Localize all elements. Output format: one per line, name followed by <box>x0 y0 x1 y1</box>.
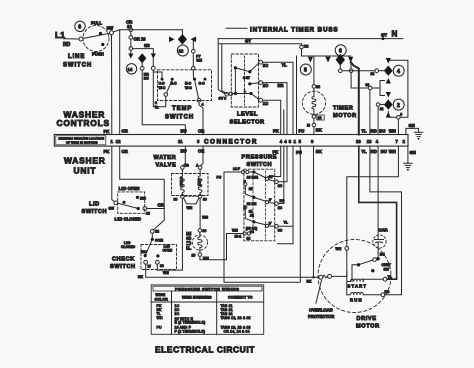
svg-text:13 DE: 13 DE <box>247 202 257 206</box>
label LEVEL SELECTOR <box>230 112 265 126</box>
wire WH link under valve <box>184 198 200 210</box>
svg-text:OR: OR <box>158 202 164 207</box>
svg-text:COM: COM <box>155 239 163 243</box>
wire BU pin to connector (position 11) <box>142 70 185 134</box>
centrifugal switch <box>352 258 392 282</box>
svg-text:10: 10 <box>356 139 361 144</box>
svg-text:0: 0 <box>78 25 81 31</box>
svg-text:1C: 1C <box>278 184 283 188</box>
svg-text:PU: PU <box>157 326 162 330</box>
svg-text:15-1: 15-1 <box>235 235 242 239</box>
svg-text:LID: LID <box>89 202 100 208</box>
svg-text:WASHER: WASHER <box>64 156 106 166</box>
node L1 <box>55 30 65 40</box>
svg-text:GN: GN <box>409 123 415 128</box>
svg-text:3C: 3C <box>263 63 268 68</box>
wire GY internal <box>218 38 301 94</box>
svg-text:WH: WH <box>232 229 238 233</box>
svg-text:OR: OR <box>198 129 204 134</box>
svg-text:N: N <box>392 30 398 39</box>
svg-text:12: 12 <box>155 230 159 234</box>
svg-text:9: 9 <box>400 113 402 117</box>
svg-text:GN: GN <box>410 150 416 155</box>
wire BK connector down to overload <box>313 146 315 277</box>
wire RD connector 13 up to 32 <box>369 90 371 135</box>
svg-text:PK: PK <box>273 129 279 134</box>
svg-text:RUN: RUN <box>350 298 363 303</box>
svg-text:L: L <box>244 89 246 93</box>
node 32 bracket <box>366 81 385 96</box>
svg-text:GY: GY <box>381 33 387 38</box>
wire labels above connector <box>104 128 396 135</box>
svg-text:SB: SB <box>144 43 150 48</box>
wire timer motor feed 18 <box>312 56 320 89</box>
node water valve 30 terminals <box>174 195 207 202</box>
node N <box>381 30 398 39</box>
svg-text:MOTOR: MOTOR <box>333 113 357 119</box>
svg-text:12: 12 <box>116 139 121 144</box>
label PRESSURE SWITCH <box>242 155 278 169</box>
svg-text:GY 3: GY 3 <box>219 96 227 100</box>
svg-text:SW: SW <box>107 26 114 31</box>
svg-text:SWITCH: SWITCH <box>247 162 273 168</box>
svg-text:CONNECT TO: CONNECT TO <box>228 296 253 300</box>
svg-text:11: 11 <box>178 139 183 144</box>
svg-text:3: 3 <box>197 139 200 144</box>
drive motor dashed circle <box>318 240 391 313</box>
label TIMER MOTOR <box>333 106 357 120</box>
connector diamond 12 with arrows <box>169 34 196 50</box>
wire BK check switch to overload <box>138 264 318 283</box>
svg-text:12: 12 <box>127 24 132 29</box>
designator circle 6 <box>335 45 346 56</box>
svg-text:3C: 3C <box>278 229 283 233</box>
svg-text:RD: RD <box>63 42 71 48</box>
svg-text:INTERNAL TIMER BUSS: INTERNAL TIMER BUSS <box>250 27 338 34</box>
check switch SW3 <box>121 233 177 269</box>
wire BU capacitor to cent switch <box>376 248 385 260</box>
svg-text:NUMBERS INDICATE LOCATION: NUMBERS INDICATE LOCATION <box>59 137 105 141</box>
svg-text:15: 15 <box>192 254 196 258</box>
water valve solenoids <box>172 166 209 196</box>
svg-text:BK: BK <box>316 149 322 154</box>
svg-text:MOTOR: MOTOR <box>356 324 380 330</box>
temp switch S2 <box>153 70 211 107</box>
svg-text:PULL: PULL <box>91 21 102 26</box>
svg-text:5B: 5B <box>185 164 190 168</box>
svg-text:OR 14, 24 & 34: OR 14, 24 & 34 <box>224 330 250 334</box>
svg-text:2: 2 <box>403 139 406 144</box>
pressure switch wiring table <box>151 285 264 334</box>
svg-text:13 DE1: 13 DE1 <box>247 176 258 180</box>
label WATER VALVE <box>154 155 177 169</box>
svg-text:INC: INC <box>140 196 146 200</box>
svg-text:SW: SW <box>109 207 115 211</box>
svg-text:BK: BK <box>307 280 312 284</box>
ground GN top right <box>406 123 423 140</box>
svg-text:OF WIRE IN HOUSING: OF WIRE IN HOUSING <box>66 140 98 144</box>
designator circle 0 (line switch) <box>75 21 85 31</box>
node GY 3 terminals <box>219 92 233 100</box>
svg-text:2′: 2′ <box>269 198 272 202</box>
label TEMP SWITCH <box>165 106 194 121</box>
connector terminal arrows near 14 <box>128 54 156 59</box>
wire RD connector 13 to motor <box>370 146 402 295</box>
node 9 terminal <box>397 113 403 135</box>
svg-text:BU: BU <box>181 129 187 134</box>
svg-text:4: 4 <box>280 139 283 144</box>
label WASHER UNIT <box>64 156 106 176</box>
wire PU connector 8 down and around to 14-F <box>217 146 301 282</box>
svg-text:CHECK: CHECK <box>112 257 135 263</box>
svg-text:12: 12 <box>179 49 184 54</box>
svg-text:BU: BU <box>144 77 149 81</box>
connector bar <box>54 135 408 147</box>
svg-text:OPEN: OPEN <box>163 249 173 253</box>
svg-text:21: 21 <box>380 107 384 111</box>
pressure switch PS1 <box>232 167 275 241</box>
svg-text:W-C: W-C <box>159 86 166 90</box>
svg-text:8: 8 <box>311 139 314 144</box>
svg-text:PU: PU <box>217 176 222 180</box>
designator circle 8 <box>300 64 311 75</box>
svg-text:30: 30 <box>174 198 178 202</box>
wire BU below bar to water valve 5B <box>183 146 190 167</box>
wire internal timer buss <box>218 37 403 40</box>
timer motor TM1 <box>302 88 325 134</box>
svg-text:26: 26 <box>318 116 322 120</box>
svg-text:E (2 TERMINALS): E (2 TERMINALS) <box>175 321 206 325</box>
svg-text:12: 12 <box>247 237 251 241</box>
svg-text:3C: 3C <box>175 312 180 316</box>
svg-text:H-C: H-C <box>171 82 178 86</box>
node RD motor terminal <box>381 290 390 297</box>
svg-text:SWITCH: SWITCH <box>165 115 194 121</box>
node 21 terminal <box>376 103 384 111</box>
wire diamond 2 to terminal 9 <box>388 112 396 118</box>
svg-text:S-W: S-W <box>243 76 250 80</box>
svg-text:YL: YL <box>282 63 288 68</box>
wire: line switch to top bus <box>113 30 182 32</box>
line switch SW1 <box>79 21 114 57</box>
node TN terminal <box>300 44 351 56</box>
svg-text:30: 30 <box>203 198 207 202</box>
connector diamond 6 <box>336 54 345 66</box>
wire PK: line switch down to connector position 1 <box>111 35 113 135</box>
node OR 12 terminal <box>126 20 133 32</box>
connector diamond (temp switch feed) <box>138 53 153 66</box>
svg-text:YL: YL <box>284 221 288 225</box>
svg-text:BK: BK <box>316 128 322 133</box>
svg-text:YL: YL <box>361 129 367 134</box>
svg-text:FUSE: FUSE <box>187 231 193 250</box>
svg-text:2C: 2C <box>263 83 268 88</box>
wire valve cold to check switch <box>157 198 182 270</box>
svg-text:14-F: 14-F <box>233 167 240 171</box>
svg-text:BK: BK <box>138 275 143 279</box>
node pressure 2C <box>269 199 285 210</box>
svg-text:PRESSURE SWITCH WIRING: PRESSURE SWITCH WIRING <box>175 286 239 291</box>
svg-text:CLOSED: CLOSED <box>121 245 136 249</box>
svg-text:22: 22 <box>371 72 375 76</box>
svg-text:2: 2 <box>397 103 400 109</box>
svg-text:6: 6 <box>339 49 342 55</box>
svg-text:SWITCH: SWITCH <box>110 264 136 270</box>
svg-text:RD: RD <box>371 129 377 134</box>
svg-text:BU: BU <box>379 129 385 134</box>
svg-text:TEMP: TEMP <box>172 106 192 112</box>
svg-text:7: 7 <box>396 139 399 144</box>
svg-text:12: 12 <box>146 212 150 216</box>
svg-text:SWITCH: SWITCH <box>63 63 92 69</box>
node 22 terminal <box>371 69 385 76</box>
wire BU connector 4 up to 21 <box>377 106 379 134</box>
svg-text:TN: TN <box>304 45 309 49</box>
wire diamond6 to 22 pin <box>339 64 375 72</box>
wire diamond6 right to 32 pin <box>349 61 368 89</box>
ground GN below right <box>404 146 412 171</box>
wire YL from 3C to connector <box>263 62 294 134</box>
svg-text:PROTECTOR: PROTECTOR <box>308 314 334 319</box>
svg-text:WH: WH <box>187 206 193 210</box>
svg-text:4: 4 <box>397 69 400 75</box>
svg-text:PK: PK <box>104 149 110 154</box>
wire valve hot to fuse <box>200 198 208 228</box>
svg-text:M: M <box>307 124 310 128</box>
wire top bus to diamond 12 <box>181 30 183 35</box>
designator circle 14 <box>126 64 136 74</box>
svg-text:C-C: C-C <box>199 82 206 86</box>
svg-text:WH: WH <box>202 216 208 220</box>
svg-text:WH: WH <box>196 59 202 63</box>
connector diamond 4 with arrows <box>384 58 393 98</box>
svg-text:PRESSURE: PRESSURE <box>242 155 278 161</box>
svg-text:2C: 2C <box>278 206 283 210</box>
svg-text:WH: WH <box>336 247 342 251</box>
svg-text:1: 1 <box>294 139 297 144</box>
svg-text:YL: YL <box>361 149 367 154</box>
svg-text:HOT: HOT <box>198 178 202 186</box>
svg-text:W-C: W-C <box>185 86 192 90</box>
wire L1 to line switch <box>63 39 79 48</box>
svg-text:W: W <box>148 265 152 269</box>
svg-text:PK: PK <box>104 129 110 134</box>
motor start winding <box>347 250 367 294</box>
svg-text:L1D OPEN: L1D OPEN <box>119 186 140 191</box>
svg-text:VALVE: VALVE <box>156 163 177 169</box>
designator circle 4 <box>393 65 404 76</box>
svg-text:30: 30 <box>160 264 164 268</box>
wire connector 4 down to 2C <box>278 146 284 203</box>
svg-text:UNIT: UNIT <box>74 166 97 176</box>
svg-text:SELECTOR: SELECTOR <box>230 120 265 126</box>
svg-text:5: 5 <box>299 139 302 144</box>
wire connector 4 down to 11' <box>268 146 281 176</box>
wire start winding to YL terminal <box>363 275 392 282</box>
svg-text:PUSH: PUSH <box>92 52 104 57</box>
svg-text:START: START <box>348 284 368 289</box>
wire PK from 1C to connector <box>263 100 281 134</box>
wire BU connector 4 down to capacitor <box>377 146 379 235</box>
svg-text:SWITCH: SWITCH <box>82 209 108 215</box>
svg-text:4: 4 <box>202 103 204 107</box>
svg-text:COLD: COLD <box>180 176 184 186</box>
svg-text:1C: 1C <box>263 101 268 106</box>
wire OR below bar to lid switch area <box>120 146 165 230</box>
connector diamond 2 with arrows <box>384 99 393 117</box>
svg-text:32: 32 <box>366 83 370 87</box>
svg-text:3′: 3′ <box>269 222 272 226</box>
label DRIVE MOTOR <box>356 316 380 330</box>
svg-text:CONTROLS: CONTROLS <box>57 118 110 128</box>
wire labels below connector <box>104 149 416 156</box>
svg-text:12: 12 <box>249 187 253 191</box>
label ELECTRICAL CIRCUIT <box>155 345 255 355</box>
wire OR down to connector position 12 <box>119 30 121 135</box>
wire connector 3 down to 1C <box>278 146 287 182</box>
wire YL heavy connector 10 up to timer <box>351 62 359 135</box>
svg-text:22: 22 <box>250 214 254 218</box>
wire BR from 2C to connector <box>263 83 288 135</box>
svg-text:PU: PU <box>296 150 302 155</box>
wire PU timer to connector position 8 <box>296 56 298 135</box>
svg-text:LEVEL: LEVEL <box>237 112 258 118</box>
wire OR temp switch 4 to connector position 3 <box>199 102 203 135</box>
svg-text:WH: WH <box>389 149 396 154</box>
designator circle 2 <box>393 99 404 110</box>
node pressure 1C <box>269 180 283 188</box>
designator circle 12 <box>177 45 188 56</box>
level selector switch <box>231 54 268 107</box>
node PT WH pin <box>192 50 203 80</box>
wire PK below bar to lid switch <box>112 146 114 202</box>
svg-text:14: 14 <box>128 67 133 72</box>
svg-text:LINE: LINE <box>68 54 85 60</box>
svg-text:30: 30 <box>203 229 207 233</box>
svg-text:8: 8 <box>304 68 307 74</box>
svg-text:WH: WH <box>163 271 169 275</box>
svg-text:BR: BR <box>278 83 284 88</box>
svg-text:18: 18 <box>316 85 320 89</box>
svg-text:GY: GY <box>245 38 251 43</box>
wire YL connector 10 to motor <box>359 146 397 279</box>
wire TL pin to temp switch pin 3 <box>153 70 166 109</box>
svg-text:RD: RD <box>371 149 377 154</box>
lid switch SW2 <box>109 186 150 222</box>
svg-text:4: 4 <box>284 139 287 144</box>
wire 4th selector run <box>283 110 285 135</box>
label LID SWITCH <box>82 202 108 216</box>
svg-text:TL: TL <box>155 105 159 109</box>
wire OR below bar to water valve A <box>196 146 203 167</box>
timer contact arrows row <box>308 57 354 63</box>
svg-text:13: 13 <box>367 139 372 144</box>
svg-text:CAP.: CAP. <box>379 228 388 233</box>
wire OR 18 drop <box>129 32 146 51</box>
label LINE SWITCH <box>63 54 92 69</box>
svg-text:WIRE NUMBERS: WIRE NUMBERS <box>182 296 212 300</box>
svg-text:L1D CLOSED: L1D CLOSED <box>115 217 142 222</box>
svg-text:4: 4 <box>376 139 379 144</box>
overload protector <box>316 272 347 303</box>
node check switch 12 <box>150 230 159 234</box>
motor run winding <box>347 292 381 302</box>
svg-text:TIMER: TIMER <box>333 106 353 112</box>
svg-text:1: 1 <box>111 139 114 144</box>
node BR BU pins <box>140 66 155 80</box>
capacitor C1 <box>373 228 388 249</box>
wire lid switch 12 to OR line <box>147 202 164 208</box>
node pressure 3C <box>269 221 288 233</box>
svg-text:F (2 TERMINALS): F (2 TERMINALS) <box>175 330 206 334</box>
svg-text:WH: WH <box>389 129 396 134</box>
svg-text:COLOR: COLOR <box>155 297 169 301</box>
label CHECK SWITCH <box>110 257 136 271</box>
fuse F1 <box>187 229 209 261</box>
svg-text:3: 3 <box>289 139 292 144</box>
internal timer buss label <box>226 27 338 34</box>
svg-text:PU: PU <box>299 129 305 134</box>
svg-text:BU: BU <box>381 149 387 154</box>
svg-text:WATER: WATER <box>154 155 177 161</box>
svg-text:CONNECTOR: CONNECTOR <box>204 139 258 146</box>
svg-text:SW: SW <box>384 267 390 271</box>
label WASHER CONTROLS <box>57 110 110 128</box>
svg-text:OR: OR <box>122 129 128 134</box>
svg-text:OR: OR <box>122 149 128 154</box>
node WH motor terminal <box>336 247 349 252</box>
svg-text:WH: WH <box>157 316 163 320</box>
svg-text:DRIVE: DRIVE <box>357 316 377 322</box>
wire SB <box>131 43 154 54</box>
wire WH connector 7 to motor <box>347 146 399 246</box>
svg-text:ELECTRICAL CIRCUIT: ELECTRICAL CIRCUIT <box>155 345 255 355</box>
wire fuse to pressure switch 15-1 <box>200 234 243 260</box>
svg-text:TABS 12, 22 & 32: TABS 12, 22 & 32 <box>221 316 251 320</box>
wire timer box left edge <box>218 39 225 94</box>
svg-text:OVERLOAD: OVERLOAD <box>309 308 333 313</box>
label OVERLOAD PROTECTOR <box>308 308 334 320</box>
wire connector 5 down to 3C and under box <box>278 146 293 244</box>
svg-text:OR 18: OR 18 <box>134 37 147 42</box>
timer output enclosure box <box>390 60 408 117</box>
